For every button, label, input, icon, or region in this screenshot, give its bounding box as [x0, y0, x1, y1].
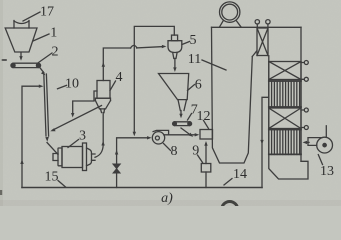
- svg-text:3: 3: [79, 129, 86, 144]
- svg-text:15: 15: [45, 170, 59, 185]
- svg-text:6: 6: [195, 77, 202, 92]
- svg-text:9: 9: [192, 143, 199, 158]
- svg-text:8: 8: [171, 144, 178, 159]
- svg-text:2: 2: [52, 45, 59, 60]
- svg-text:12: 12: [197, 109, 211, 124]
- svg-text:14: 14: [233, 167, 247, 182]
- svg-text:11: 11: [188, 52, 201, 67]
- svg-text:10: 10: [65, 76, 79, 91]
- svg-text:5: 5: [190, 33, 197, 48]
- svg-text:13: 13: [320, 164, 334, 179]
- svg-text:4: 4: [116, 70, 123, 85]
- svg-text:17: 17: [40, 5, 54, 20]
- svg-text:1: 1: [50, 26, 57, 41]
